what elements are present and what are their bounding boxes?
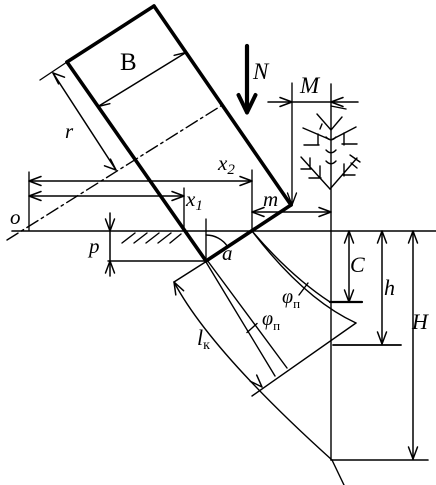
dimension p vertical line: [109, 213, 111, 276]
force N arrowhead: [239, 95, 256, 113]
svg-text:a: a: [222, 241, 233, 265]
dimension M left arrowhead: [280, 98, 292, 107]
svg-text:h: h: [384, 275, 395, 300]
dimension m left arrowhead: [252, 208, 264, 217]
dimension x1 right arrowhead: [172, 192, 184, 201]
stand right edge: [154, 6, 291, 205]
plant stem curl 2: [326, 150, 336, 153]
dimension C lower arrowhead: [345, 290, 354, 302]
lk shear line through soil: [174, 282, 332, 460]
shear line tail: [332, 460, 344, 485]
dimension h upper arrowhead: [378, 231, 387, 243]
svg-text:o: o: [10, 205, 21, 229]
bottom depth line: [331, 459, 428, 461]
dimension C vertical line: [348, 231, 350, 302]
dimension C upper arrowhead: [345, 231, 354, 243]
dimension x1 left arrowhead: [29, 192, 41, 201]
dimension r line: [53, 73, 116, 170]
x2 left extension line: [28, 172, 30, 230]
svg-text:r: r: [65, 119, 74, 143]
plant stem curl 1: [326, 137, 336, 140]
svg-text:m: m: [263, 187, 278, 211]
stand top edge: [67, 6, 154, 62]
ground surface line: [12, 230, 436, 232]
svg-text:M: M: [299, 73, 321, 98]
plant stem curl 3: [326, 161, 336, 164]
dimension H vertical line: [412, 231, 414, 459]
stand bottom share edge: [206, 205, 291, 261]
plant whorl 3 right branch: [330, 155, 360, 189]
svg-text:H: H: [411, 309, 429, 334]
dimension p lower arrowhead: [106, 261, 115, 273]
dimension H upper arrowhead: [409, 231, 418, 243]
h bottom tick: [333, 344, 401, 346]
force N shaft: [245, 46, 249, 110]
dimension h vertical line: [381, 231, 383, 344]
svg-text:C: C: [350, 252, 365, 277]
dimension h lower arrowhead: [378, 332, 387, 344]
plant top twig: [331, 106, 346, 109]
dimension r upper arrowhead: [53, 73, 65, 84]
plant whorl 3 left branch: [301, 157, 330, 189]
C bottom tick: [330, 301, 362, 303]
shear wedge 1 upper curve: [252, 231, 330, 302]
svg-text:B: B: [120, 49, 137, 76]
stand axis dash-dot centerline: [7, 104, 224, 240]
knife lower end edge with extension: [252, 323, 356, 396]
knife band left line: [206, 262, 275, 376]
plant whorl 2 left branch: [303, 128, 331, 145]
dimension M line: [268, 101, 358, 103]
svg-text:p: p: [87, 234, 100, 258]
dimension lk upper arrowhead: [174, 282, 184, 295]
plant stem: [330, 84, 332, 460]
dimension m right arrowhead: [319, 208, 331, 217]
wedge 1 angle tick: [299, 283, 308, 295]
shear wedge 1 lower curve: [252, 231, 356, 323]
dimension H lower arrowhead: [409, 447, 418, 459]
knife end face edge at a: [174, 261, 207, 282]
plant whorl 1: [317, 114, 342, 130]
angle arc at point a: [206, 235, 228, 247]
dimension p upper arrowhead: [106, 219, 115, 231]
M left extension line: [291, 83, 293, 203]
M extension bottom arrowhead: [288, 193, 297, 205]
furrow bottom line: [108, 260, 206, 262]
svg-text:N: N: [252, 59, 270, 84]
knife band right line: [207, 260, 287, 368]
dimension x2 line: [29, 180, 252, 182]
top edge extension line: [40, 62, 67, 80]
dimension B left arrowhead: [98, 104, 110, 117]
dimension r lower arrowhead: [105, 159, 117, 170]
dimension x1 line: [29, 195, 184, 197]
dimension B line: [98, 53, 186, 107]
dimension m line: [252, 211, 331, 213]
stand left edge: [67, 62, 206, 261]
x2 right extension line: [251, 170, 253, 230]
dimension x2 right arrowhead: [240, 177, 252, 186]
dimension M right arrowhead: [331, 98, 343, 107]
dimension B right arrowhead: [174, 42, 186, 55]
vertical reference at point a: [205, 219, 207, 261]
dimension lk lower arrowhead: [250, 375, 262, 387]
plant whorl 2 right branch: [331, 127, 357, 145]
x1 right extension line: [183, 188, 185, 230]
band angle tick: [247, 324, 257, 333]
dimension x2 left arrowhead: [29, 177, 41, 186]
ground hatching: [122, 233, 181, 243]
